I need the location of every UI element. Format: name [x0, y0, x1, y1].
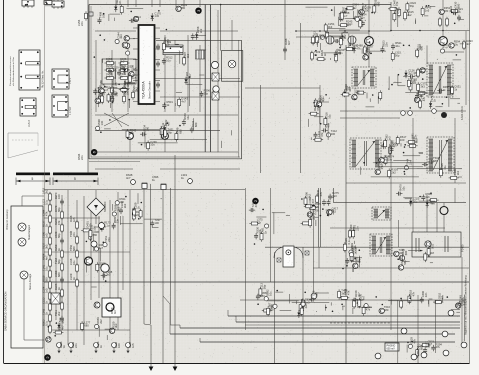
- svg-text:1n5: 1n5: [132, 76, 137, 80]
- svg-text:0,1u: 0,1u: [347, 239, 351, 245]
- svg-text:22n: 22n: [426, 195, 431, 199]
- svg-text:22n: 22n: [385, 42, 389, 47]
- svg-text:2k2: 2k2: [308, 193, 312, 198]
- svg-text:56p: 56p: [57, 233, 61, 238]
- svg-text:47k: 47k: [364, 4, 368, 9]
- svg-text:0,1u: 0,1u: [346, 22, 352, 26]
- svg-text:0,1u: 0,1u: [380, 163, 384, 169]
- svg-text:8-620.235.01: 8-620.235.01: [461, 105, 464, 120]
- svg-text:100: 100: [57, 194, 61, 199]
- svg-text:1n5: 1n5: [394, 142, 398, 147]
- svg-text:2k2: 2k2: [123, 203, 127, 208]
- svg-text:1n5: 1n5: [352, 226, 356, 231]
- svg-text:10u: 10u: [454, 43, 459, 47]
- svg-text:4n7: 4n7: [466, 42, 471, 46]
- svg-text:1n5: 1n5: [44, 288, 48, 293]
- svg-text:4n7: 4n7: [254, 202, 258, 207]
- svg-text:2k2: 2k2: [456, 170, 460, 175]
- svg-text:4n7: 4n7: [113, 309, 117, 314]
- svg-text:47k: 47k: [57, 220, 61, 225]
- svg-text:4n7: 4n7: [181, 100, 186, 104]
- svg-text:22n: 22n: [409, 160, 413, 165]
- svg-text:3k3: 3k3: [44, 244, 48, 249]
- svg-text:47k: 47k: [319, 191, 323, 196]
- svg-text:47k: 47k: [257, 221, 262, 225]
- svg-text:680: 680: [181, 6, 186, 10]
- svg-text:2k2: 2k2: [420, 70, 425, 74]
- svg-text:4n7: 4n7: [361, 295, 365, 300]
- svg-text:680: 680: [179, 129, 183, 134]
- svg-text:3k3: 3k3: [199, 28, 203, 33]
- svg-text:680: 680: [457, 3, 461, 8]
- svg-text:Pb 314 Best.-Nr.: Pb 314 Best.-Nr.: [42, 70, 45, 88]
- svg-text:10u: 10u: [443, 165, 447, 170]
- svg-text:2k2: 2k2: [408, 71, 413, 75]
- svg-text:4n7: 4n7: [357, 89, 361, 94]
- svg-text:22n: 22n: [80, 155, 84, 160]
- svg-text:2k2: 2k2: [419, 94, 424, 98]
- svg-text:47k: 47k: [397, 9, 401, 14]
- svg-text:47k: 47k: [44, 211, 48, 216]
- svg-text:56p: 56p: [410, 4, 415, 8]
- svg-text:100: 100: [145, 126, 149, 131]
- svg-text:4n7: 4n7: [99, 246, 104, 250]
- svg-text:10u: 10u: [186, 115, 190, 120]
- svg-text:22n: 22n: [107, 237, 111, 242]
- svg-text:680: 680: [444, 9, 449, 13]
- svg-text:4n7: 4n7: [60, 325, 64, 330]
- svg-text:10u: 10u: [166, 58, 171, 62]
- svg-text:56p: 56p: [168, 130, 173, 134]
- svg-text:1n5: 1n5: [359, 11, 363, 16]
- svg-text:0,1u: 0,1u: [126, 81, 130, 87]
- svg-text:680: 680: [84, 323, 89, 327]
- svg-text:Skalenlampen: Skalenlampen: [28, 224, 31, 240]
- svg-text:3k3: 3k3: [186, 53, 190, 58]
- svg-text:22n: 22n: [424, 292, 428, 297]
- svg-text:1n5: 1n5: [387, 136, 391, 141]
- svg-text:680: 680: [72, 246, 76, 251]
- svg-text:680: 680: [419, 345, 423, 350]
- svg-text:100: 100: [154, 221, 159, 225]
- svg-text:680: 680: [57, 272, 61, 277]
- svg-text:100: 100: [117, 343, 121, 348]
- svg-text:56p: 56p: [413, 199, 418, 203]
- svg-text:47k: 47k: [440, 294, 444, 299]
- svg-text:47k: 47k: [462, 297, 466, 302]
- svg-text:1n5: 1n5: [427, 343, 431, 348]
- svg-text:1n5: 1n5: [425, 9, 430, 13]
- svg-text:22n: 22n: [116, 218, 120, 223]
- svg-text:2k2: 2k2: [99, 319, 103, 324]
- svg-text:1 U 517: 1 U 517: [69, 106, 72, 115]
- svg-text:2k2: 2k2: [44, 189, 48, 194]
- svg-text:4n7: 4n7: [287, 40, 291, 45]
- svg-text:4n7: 4n7: [357, 292, 361, 297]
- svg-text:1U517: 1U517: [28, 119, 31, 127]
- svg-text:22n: 22n: [118, 0, 122, 5]
- svg-text:0,1u: 0,1u: [431, 243, 435, 249]
- svg-text:600 mV: 600 mV: [387, 348, 396, 351]
- svg-text:680: 680: [44, 277, 48, 282]
- svg-text:TCA 4500 A: TCA 4500 A: [142, 81, 146, 99]
- svg-text:10u: 10u: [328, 114, 332, 119]
- svg-text:47k: 47k: [327, 123, 331, 128]
- svg-text:56p: 56p: [403, 260, 407, 265]
- svg-text:56p: 56p: [395, 54, 400, 58]
- svg-text:B40C800: B40C800: [104, 201, 107, 212]
- svg-text:0,1u: 0,1u: [44, 320, 48, 326]
- svg-text:P1400: P1400: [461, 244, 465, 252]
- svg-text:SABA SERVICE-ORGANISATION: SABA SERVICE-ORGANISATION: [4, 291, 8, 331]
- svg-text:47k: 47k: [106, 60, 111, 64]
- svg-text:10u: 10u: [72, 260, 76, 265]
- svg-text:Stereo Anzeige: Stereo Anzeige: [29, 273, 32, 290]
- svg-text:100: 100: [331, 132, 336, 136]
- svg-text:0,1u: 0,1u: [321, 96, 325, 102]
- svg-text:22n: 22n: [352, 46, 357, 50]
- svg-text:1n5: 1n5: [100, 121, 104, 126]
- svg-text:22n: 22n: [74, 343, 78, 348]
- svg-text:47k: 47k: [320, 132, 324, 137]
- svg-text:47k: 47k: [366, 308, 371, 312]
- svg-text:1n5: 1n5: [131, 343, 135, 348]
- svg-text:680: 680: [433, 159, 438, 163]
- svg-text:2k2: 2k2: [120, 60, 125, 64]
- svg-text:10u: 10u: [44, 266, 48, 271]
- svg-text:10u: 10u: [395, 44, 400, 48]
- svg-text:100: 100: [314, 292, 318, 297]
- svg-text:47k: 47k: [315, 205, 320, 209]
- svg-text:680: 680: [384, 308, 389, 312]
- svg-text:56p: 56p: [204, 91, 209, 95]
- svg-text:1n5: 1n5: [72, 217, 76, 222]
- svg-text:4n7: 4n7: [126, 176, 131, 180]
- svg-text:47k: 47k: [412, 291, 416, 296]
- svg-text:5: 5: [32, 177, 34, 181]
- svg-text:1n5: 1n5: [112, 68, 117, 72]
- svg-text:47k: 47k: [413, 339, 417, 344]
- svg-text:680: 680: [93, 233, 98, 237]
- svg-text:47k: 47k: [134, 18, 139, 22]
- svg-text:680: 680: [404, 250, 408, 255]
- svg-text:Potentiometeransicht von vorn: Potentiometeransicht von vorn: [9, 56, 12, 86]
- svg-text:1n5: 1n5: [44, 233, 48, 238]
- svg-text:47k: 47k: [395, 1, 399, 6]
- svg-text:100: 100: [400, 138, 405, 142]
- svg-text:100: 100: [411, 81, 416, 85]
- svg-text:2k2: 2k2: [407, 13, 412, 17]
- svg-text:56p: 56p: [57, 259, 61, 264]
- svg-text:680: 680: [194, 122, 198, 127]
- svg-text:10u: 10u: [150, 143, 155, 147]
- svg-text:1n5: 1n5: [154, 14, 159, 18]
- svg-text:alle Widerstandswerte in Ohm: alle Widerstandswerte in Ohm: [12, 57, 15, 86]
- svg-text:56p: 56p: [57, 207, 61, 212]
- svg-text:3k3: 3k3: [341, 292, 346, 296]
- svg-text:22n: 22n: [130, 131, 135, 135]
- svg-text:10u: 10u: [114, 82, 118, 87]
- svg-text:5: 5: [74, 177, 76, 181]
- svg-text:1n5: 1n5: [106, 75, 111, 79]
- svg-text:2k2: 2k2: [57, 311, 61, 316]
- svg-text:680: 680: [121, 65, 125, 70]
- svg-text:56p: 56p: [354, 247, 358, 252]
- svg-text:22n: 22n: [80, 21, 84, 26]
- svg-text:22n: 22n: [414, 134, 418, 139]
- svg-text:680: 680: [376, 1, 380, 6]
- svg-text:2k2: 2k2: [135, 87, 139, 92]
- svg-text:10u: 10u: [401, 186, 405, 191]
- svg-text:10u: 10u: [268, 291, 272, 296]
- svg-text:3k3: 3k3: [106, 273, 111, 277]
- svg-text:Printed in Germany: Printed in Germany: [6, 209, 9, 230]
- svg-text:3k3: 3k3: [348, 87, 352, 92]
- svg-text:47k: 47k: [436, 345, 441, 349]
- svg-text:0,1u: 0,1u: [44, 199, 48, 205]
- svg-text:Stereo-Decoder: Stereo-Decoder: [149, 81, 152, 99]
- svg-text:4n7: 4n7: [44, 255, 48, 260]
- svg-text:56p: 56p: [263, 284, 267, 289]
- svg-text:L 471: L 471: [69, 77, 72, 84]
- svg-text:2k2: 2k2: [352, 5, 357, 9]
- svg-text:10u: 10u: [93, 226, 97, 231]
- svg-text:3k3: 3k3: [420, 84, 425, 88]
- svg-text:3k3: 3k3: [384, 157, 389, 161]
- svg-text:2k2: 2k2: [391, 171, 396, 175]
- svg-text:3k3: 3k3: [119, 34, 123, 39]
- svg-text:22n: 22n: [72, 232, 76, 237]
- svg-text:0,1u: 0,1u: [445, 42, 449, 48]
